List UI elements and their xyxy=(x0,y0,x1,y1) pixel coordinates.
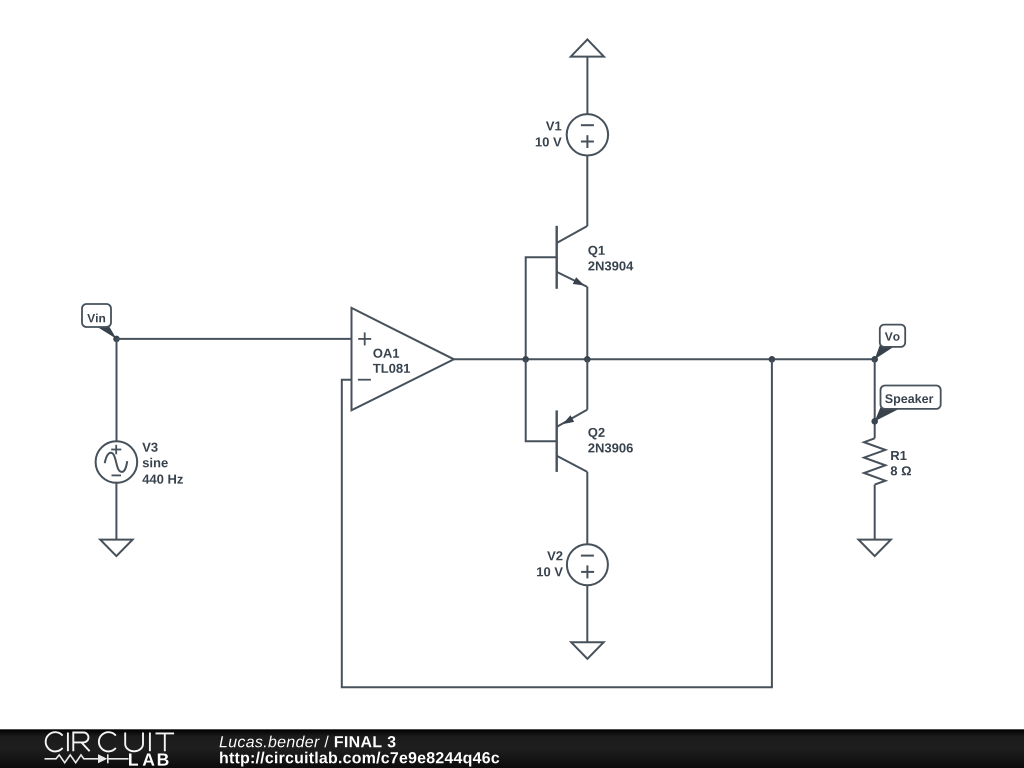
wire V2 to ground xyxy=(586,585,588,642)
node Speaker xyxy=(871,418,878,425)
label OA1 TL081 xyxy=(373,349,410,373)
voltage source V2 xyxy=(567,544,608,585)
transistor Q1 2N3904 xyxy=(557,226,588,289)
op-amp OA1 xyxy=(352,308,454,410)
node feedback junction xyxy=(769,356,776,363)
label Q2 2N3906 xyxy=(588,428,633,453)
label V1 10 V xyxy=(536,121,562,146)
footer title Lucas.bender / FINAL 3 xyxy=(219,736,395,748)
label R1 8 ohm xyxy=(891,451,911,475)
voltage source V3 sine xyxy=(96,441,138,483)
wire Q1 emitter to output rail xyxy=(586,287,588,359)
node emitter junction xyxy=(584,356,591,363)
footer bar xyxy=(0,729,1024,768)
footer url xyxy=(220,752,499,767)
wire op-amp output rail xyxy=(454,358,875,360)
CircuitLab logo resistor-diode line xyxy=(45,754,129,763)
flag Speaker xyxy=(875,386,941,422)
ground (V3) xyxy=(100,540,132,557)
resistor R1 xyxy=(864,438,885,484)
power flag (V1 positive rail) xyxy=(571,39,604,56)
label Q1 2N3904 xyxy=(588,246,633,271)
wire Q2 collector to V2 xyxy=(586,472,588,544)
wire Vo node to R1 xyxy=(874,359,876,438)
wire power flag to V1 xyxy=(586,57,588,115)
wire feedback loop to inverting input xyxy=(342,359,772,687)
CircuitLab logo CIRCUIT xyxy=(46,732,174,751)
flag Vo xyxy=(875,325,906,360)
wire Q1 base xyxy=(526,257,557,359)
wire Q2 base xyxy=(526,359,557,441)
transistor Q2 2N3906 xyxy=(557,410,588,472)
node Vo xyxy=(871,356,878,363)
wire output rail to Q2 emitter xyxy=(586,359,588,409)
label V3 sine 440 Hz xyxy=(142,443,183,484)
wire V1 to Q1 collector xyxy=(586,156,588,227)
wire Vin to op-amp non-inverting input xyxy=(117,338,352,340)
wire R1 to ground xyxy=(874,485,876,540)
wire V3 to ground xyxy=(115,482,117,540)
label V2 10 V xyxy=(537,551,563,576)
CircuitLab logo LAB xyxy=(129,753,169,765)
wire Vin to V3 xyxy=(116,339,118,441)
ground (R1) xyxy=(859,540,891,557)
voltage source V1 xyxy=(567,114,608,155)
ground (V2) xyxy=(571,642,603,659)
node Vin xyxy=(113,336,120,343)
flag Vin xyxy=(82,304,117,339)
node base junction xyxy=(522,356,529,363)
